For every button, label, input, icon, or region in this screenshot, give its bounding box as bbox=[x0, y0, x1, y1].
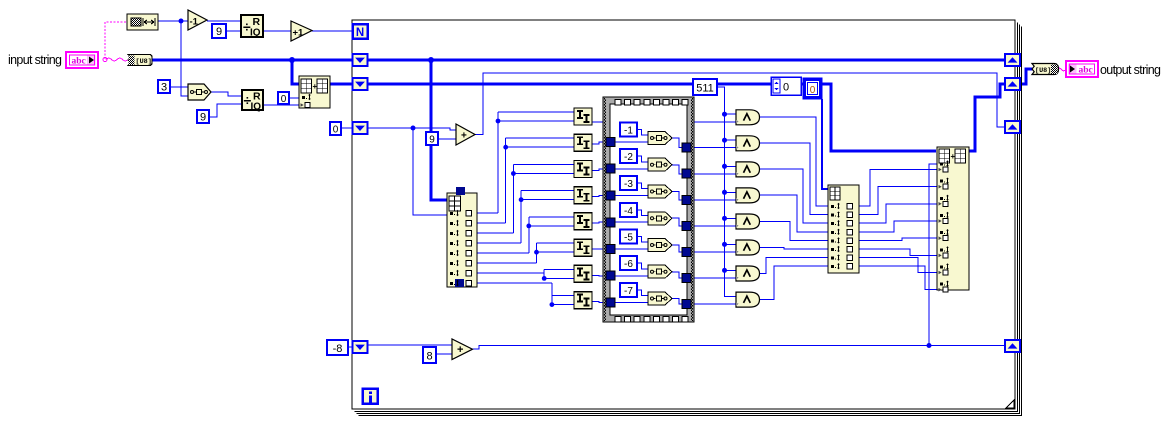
for-loop border bbox=[352, 20, 1015, 409]
tunnel left 1 bbox=[606, 138, 615, 147]
wire byte-array to shift-register-1 bbox=[152, 59, 353, 62]
wire branch to replace-array-2 index bbox=[929, 164, 937, 346]
wire tunnel-right 2 to and-gate 3 bbox=[691, 173, 736, 175]
wire const0b to shift-register-3 bbox=[341, 127, 353, 129]
constant -5 and shifter in sequence bbox=[637, 237, 648, 243]
wire shifter 3 lower input bbox=[513, 173, 574, 175]
wire shift-register-2 to replace-array-2 bbox=[368, 84, 936, 151]
svg-text:abc: abc bbox=[72, 57, 86, 67]
wire replace-array-2 to shift-register-2-right bbox=[969, 84, 1005, 151]
svg-text:-5: -5 bbox=[624, 233, 633, 244]
wire index-array-2 out 8 to replace-array-2 bbox=[859, 266, 937, 290]
node junction bus 2 bbox=[722, 138, 727, 143]
and-gate 3 bbox=[736, 162, 760, 177]
node junction array bbox=[428, 57, 434, 63]
terminal N bbox=[353, 24, 368, 39]
wire shifter 8 lower input bbox=[552, 304, 574, 306]
wire index-array-2 out 1 to replace-array-2 bbox=[859, 170, 937, 207]
shift-register left 3 bbox=[353, 122, 368, 134]
shift-register left 1 bbox=[353, 54, 368, 66]
wire const9b to quotient2 bbox=[209, 104, 242, 117]
wire index-array-1 out 8 to shifter 8 bbox=[477, 282, 552, 284]
tunnel left 2 bbox=[606, 164, 615, 173]
wire and-gate 5 to index-array-2 bbox=[760, 221, 828, 240]
array-constant index display bbox=[771, 77, 801, 95]
function shifter 3 bbox=[574, 161, 592, 178]
wire bus branch to and-gate 4 bbox=[725, 191, 737, 193]
wire shift-register-2 to byte-to-string bbox=[1020, 69, 1032, 84]
wire index-array-1 out 7 to shifter 7 bbox=[477, 272, 544, 274]
svg-text:0: 0 bbox=[281, 94, 287, 105]
wire replace-array-1 to shift-register-2 bbox=[330, 83, 353, 86]
function add-2 bbox=[452, 339, 473, 360]
svg-text:9: 9 bbox=[429, 135, 435, 146]
svg-text:3: 3 bbox=[161, 82, 167, 94]
constant -8 bbox=[327, 340, 348, 355]
wire shifter 1 lower input bbox=[498, 120, 574, 122]
constant -1 and shifter in sequence bbox=[637, 130, 648, 136]
and-gate 1 bbox=[736, 110, 760, 125]
function string-to-byte-array bbox=[128, 55, 152, 66]
wire quotient to increment bbox=[263, 30, 291, 32]
wire tunnel-right 7 to and-gate 8 bbox=[691, 303, 736, 305]
tunnel left 5 bbox=[606, 245, 615, 254]
tunnel right 7 bbox=[682, 300, 691, 309]
node junction shifter 2 bbox=[503, 145, 508, 150]
tunnel left 7 bbox=[606, 298, 615, 307]
svg-text:9: 9 bbox=[216, 26, 222, 38]
node junction shifter 3 bbox=[511, 171, 516, 176]
node junction shifter 6 bbox=[534, 250, 539, 255]
wire shifter 7 to tunnel 6 bbox=[592, 274, 606, 276]
tunnel right 4 bbox=[682, 221, 691, 230]
wire const3 to logical-shift bbox=[170, 86, 188, 88]
wire index-array-1 out 4 to shifter 4 bbox=[477, 242, 521, 244]
wire index-array-1 out 2 to shifter 2 bbox=[477, 222, 506, 224]
constant -3 and shifter in sequence bbox=[637, 183, 648, 189]
wire index-array-2 out 6 to replace-array-2 bbox=[859, 249, 937, 255]
tunnel right 3 bbox=[682, 195, 691, 204]
constant -6 and shifter in sequence bbox=[637, 263, 648, 269]
svg-text:R: R bbox=[253, 16, 261, 28]
wire add1 to shift-register-3-right bbox=[475, 73, 1005, 135]
svg-text:-6: -6 bbox=[624, 259, 633, 270]
shift-register right 1 bbox=[1005, 54, 1020, 66]
wire tunnel-right 4 to and-gate 5 bbox=[691, 225, 736, 227]
wire index-array-1 out 5 to shifter 5 bbox=[477, 252, 529, 254]
and-gate 4 bbox=[736, 188, 760, 203]
wire const511 bus bbox=[717, 87, 736, 297]
wire branch to replace-array-1 bbox=[292, 60, 299, 84]
svg-text:IQ: IQ bbox=[251, 102, 262, 113]
shift-register left 2 bbox=[353, 78, 368, 90]
wire bus branch to and-gate 6 bbox=[725, 243, 737, 245]
shift-register right 4 bbox=[1005, 340, 1020, 352]
wire hidden behind sequence to and-gate-1 bbox=[691, 121, 736, 123]
wire index-array-1 out 1 to shifter 1 bbox=[477, 212, 498, 214]
node junction add2 bbox=[927, 343, 932, 348]
constant 9a bbox=[212, 24, 226, 38]
constant -2 and shifter in sequence bbox=[637, 156, 648, 162]
tunnel right 1 bbox=[682, 143, 691, 152]
and-gate 6 bbox=[736, 240, 760, 255]
wire and-gate 1 to index-array-2 bbox=[760, 117, 828, 206]
shift-register right 2 bbox=[1005, 78, 1020, 90]
wire array-const to index-array-2 bbox=[822, 99, 828, 189]
node junction byte-array bbox=[289, 57, 295, 63]
wire and-gate 8 to index-array-2 bbox=[760, 266, 828, 299]
constant -7 and shifter in sequence bbox=[637, 290, 648, 296]
wire and-gate 4 to index-array-2 bbox=[760, 195, 828, 232]
constant -4 and shifter in sequence bbox=[637, 210, 648, 216]
function index-array-2 bbox=[828, 185, 859, 273]
svg-text:abc: abc bbox=[1079, 66, 1093, 76]
shift-register left 4 bbox=[353, 341, 368, 353]
wire shift-register-1 across loop bbox=[368, 59, 1005, 62]
wire index-array-2 out 3 to replace-array-2 bbox=[859, 204, 937, 223]
wire and-gate 3 to index-array-2 bbox=[760, 169, 828, 223]
svg-text:[U8]: [U8] bbox=[136, 58, 152, 66]
wire byte-to-string to output string (pink) bbox=[1057, 68, 1066, 71]
svg-text:-3: -3 bbox=[624, 179, 633, 190]
indicator output string bbox=[1066, 61, 1098, 77]
function byte-array-to-string bbox=[1032, 64, 1059, 75]
wire shift-register-4 to add2 bbox=[368, 344, 452, 346]
wire shift-register-3 to add1 bbox=[368, 128, 456, 130]
svg-text:output string: output string bbox=[1100, 63, 1161, 77]
function replace-array-subset-1 bbox=[299, 76, 330, 108]
wire bus branch to and-gate 7 bbox=[725, 269, 737, 271]
node junction shifter 5 bbox=[526, 224, 531, 229]
tunnel right 6 bbox=[682, 273, 691, 282]
svg-text:+1: +1 bbox=[293, 28, 305, 39]
svg-text:IQ: IQ bbox=[250, 28, 261, 39]
wire tunnel-right 3 to and-gate 4 bbox=[691, 199, 736, 201]
tunnel right 5 bbox=[682, 247, 691, 256]
wire shifter-1 output to border bbox=[592, 121, 604, 123]
wire index-array-2 out 2 to replace-array-2 bbox=[859, 187, 937, 215]
for-loop shadow bbox=[355, 23, 1018, 412]
function quotient-remainder-2 bbox=[242, 90, 263, 110]
wire shifter 4 to tunnel 3 bbox=[592, 196, 606, 197]
wire shifter 8 to tunnel 7 bbox=[592, 301, 606, 304]
function shifter 5 bbox=[574, 213, 592, 230]
wire and-gate 6 to index-array-2 bbox=[760, 247, 828, 249]
tunnel left 4 bbox=[606, 218, 615, 227]
function replace-array-subset-2 bbox=[937, 147, 969, 290]
svg-text:-7: -7 bbox=[624, 286, 633, 297]
svg-text:[U8]: [U8] bbox=[1035, 67, 1051, 75]
and-gate 8 bbox=[736, 292, 760, 307]
wire index-array-1 out 6 to shifter 6 bbox=[477, 262, 537, 264]
svg-text:+: + bbox=[457, 344, 463, 356]
constant 9c bbox=[426, 132, 438, 145]
wire increment to N bbox=[312, 30, 353, 32]
svg-text:-1: -1 bbox=[624, 126, 633, 137]
svg-text:511: 511 bbox=[696, 83, 714, 95]
constant 8 bbox=[423, 347, 436, 363]
function index-array-1 bbox=[447, 193, 477, 287]
for-loop resize notch bbox=[1006, 400, 1014, 408]
wire string-length to decrement bbox=[158, 20, 188, 22]
svg-text:8: 8 bbox=[426, 351, 432, 363]
and-gate 2 bbox=[736, 136, 760, 151]
constant 511 bbox=[693, 79, 717, 95]
function quotient-remainder-1 bbox=[241, 15, 263, 37]
wire shifter 2 to tunnel 1 bbox=[592, 142, 606, 144]
node junction pink bbox=[103, 58, 107, 62]
wire bus branch to and-gate 1 bbox=[725, 113, 737, 115]
svg-text:-4: -4 bbox=[624, 206, 633, 217]
control input string bbox=[66, 52, 98, 68]
wire tunnel-right 6 to and-gate 7 bbox=[691, 277, 736, 279]
shift-register right 3 bbox=[1005, 121, 1020, 133]
svg-text:N: N bbox=[356, 27, 364, 39]
node junction bus 7 bbox=[722, 268, 727, 273]
wire decrement to quotient bbox=[207, 20, 241, 22]
wire bus branch to and-gate 5 bbox=[725, 217, 737, 219]
wire junction length down bbox=[181, 21, 188, 96]
wire index-array-2 out 4 to replace-array-2 bbox=[859, 221, 937, 232]
wire const0a to replace-array-1 bbox=[289, 97, 299, 99]
wire add2 to shift-register-4-right bbox=[472, 346, 1005, 350]
wire shifter 2 lower input bbox=[506, 146, 574, 148]
node junction bus 1 bbox=[722, 112, 727, 117]
svg-text:0: 0 bbox=[333, 125, 339, 136]
function shifter 2 bbox=[574, 134, 592, 151]
wire shifter 5 lower input bbox=[529, 225, 574, 227]
wire shifter 6 lower input bbox=[537, 251, 575, 253]
svg-text:9: 9 bbox=[200, 112, 206, 124]
function shifter 7 bbox=[574, 265, 592, 282]
wire index-array-1 out 3 to shifter 3 bbox=[477, 232, 513, 234]
and-gate 5 bbox=[736, 214, 760, 229]
wire input-string to string-length (dotted pink) bbox=[105, 22, 127, 59]
constant 3 bbox=[158, 80, 170, 93]
constant 0b bbox=[330, 122, 341, 135]
function logical-shift bbox=[188, 84, 211, 100]
wire bus branch to and-gate 3 bbox=[725, 165, 737, 167]
function string-length bbox=[127, 14, 158, 30]
wire and-gate 2 to index-array-2 bbox=[760, 143, 828, 215]
node junction bus 6 bbox=[722, 242, 727, 247]
wire shifter 4 lower input bbox=[521, 199, 574, 201]
function decrement bbox=[188, 10, 207, 30]
wire array branch down to index-array-1 bbox=[431, 60, 447, 200]
node junction shifter 4 bbox=[519, 197, 524, 202]
function shifter 4 bbox=[574, 187, 592, 204]
node junction index bbox=[411, 126, 416, 131]
svg-text:-2: -2 bbox=[624, 152, 633, 163]
svg-text:0: 0 bbox=[783, 82, 789, 94]
tunnel left 3 bbox=[606, 191, 615, 200]
constant 9b bbox=[197, 110, 209, 123]
svg-text:-8: -8 bbox=[333, 343, 343, 355]
svg-text:-1: -1 bbox=[190, 17, 199, 28]
svg-text:input string: input string bbox=[8, 53, 62, 67]
wire bus branch to and-gate 2 bbox=[725, 139, 737, 141]
function shifter 1 bbox=[574, 108, 592, 125]
wire quotient2 to replace-array-1 bbox=[263, 104, 299, 106]
wire index-array-2 out 7 to replace-array-2 bbox=[859, 258, 937, 273]
function increment bbox=[291, 21, 312, 41]
flat-sequence structure bbox=[603, 97, 694, 322]
wire shifter 6 to tunnel 5 bbox=[592, 248, 606, 250]
wire branch to index-array-1 index bbox=[413, 128, 447, 215]
svg-text:0: 0 bbox=[810, 85, 816, 96]
wire const8 to add2 bbox=[436, 353, 452, 355]
function add-1 bbox=[456, 124, 475, 145]
wire shifter 5 to tunnel 4 bbox=[592, 221, 606, 224]
wire and-gate 7 to index-array-2 bbox=[760, 258, 828, 274]
node junction shifter 1 bbox=[496, 119, 501, 124]
node junction bus 5 bbox=[722, 216, 727, 221]
wire index-array-2 out 5 to replace-array-2 bbox=[859, 238, 937, 240]
wire tunnel-right 1 to and-gate 2 bbox=[691, 147, 736, 149]
wire const-8 to shift-register-4 bbox=[348, 346, 353, 348]
wire shifter 3 to tunnel 2 bbox=[592, 169, 606, 171]
wire tunnel-right 5 to and-gate 6 bbox=[691, 251, 736, 253]
node junction shifter 7 bbox=[542, 276, 547, 281]
wire const9c to add1 bbox=[438, 138, 456, 140]
wire const9a to quotient bbox=[226, 30, 241, 32]
and-gate 7 bbox=[736, 266, 760, 281]
node junction shifter 8 bbox=[550, 302, 555, 307]
function shifter 6 bbox=[574, 239, 592, 256]
function shifter 8 bbox=[574, 292, 592, 309]
node junction bus 4 bbox=[722, 190, 727, 195]
tunnel right 2 bbox=[682, 169, 691, 178]
svg-text:+: + bbox=[461, 131, 467, 142]
array-constant element 0 bbox=[803, 78, 822, 99]
terminal i bbox=[363, 389, 378, 404]
wire logical-shift to quotient2 bbox=[211, 92, 242, 96]
node junction length bbox=[179, 19, 184, 24]
tunnel left 6 bbox=[606, 271, 615, 280]
node junction bus 3 bbox=[722, 164, 727, 169]
wire shifter 7 lower input bbox=[544, 277, 574, 279]
wire input string to byte-array (pink) bbox=[106, 58, 128, 61]
constant 0a bbox=[278, 92, 289, 104]
